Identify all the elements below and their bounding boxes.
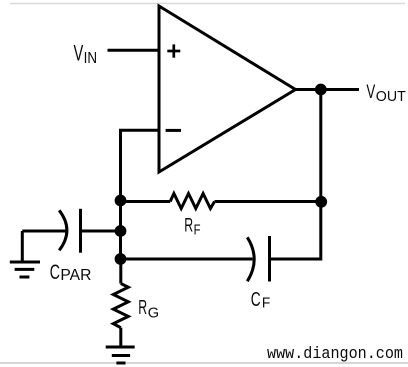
wire: RG bottom lead to ground <box>119 328 122 347</box>
wire CPAR to ground <box>21 231 24 262</box>
wire: CF right plate to output bus <box>270 258 321 261</box>
svg-text:www.diangon.com: www.diangon.com <box>267 345 403 364</box>
wire VIN to plus input <box>108 49 160 52</box>
wire output from apex <box>295 88 359 91</box>
label VOUT <box>366 81 405 105</box>
bottom faint rule <box>0 362 408 364</box>
node: CF / RG junction <box>115 253 127 265</box>
capacitor CF straight plate <box>268 236 271 282</box>
capacitor CPAR straight plate <box>79 209 82 253</box>
op-amp plus pin marker <box>167 44 180 57</box>
wire: CPAR right plate to left bus <box>81 230 121 233</box>
svg-text:R: R <box>184 214 193 236</box>
label RF <box>184 214 200 238</box>
svg-text:V: V <box>366 81 375 103</box>
svg-text:C: C <box>50 260 60 284</box>
op-amp U1 <box>159 6 296 172</box>
svg-text:V: V <box>74 41 84 66</box>
svg-text:PAR: PAR <box>60 267 91 284</box>
svg-text:G: G <box>148 305 159 322</box>
wire right bus vertical <box>319 90 322 261</box>
svg-text:OUT: OUT <box>376 88 406 105</box>
wire left bus vertical <box>119 130 122 260</box>
node: output junction <box>315 84 327 96</box>
label CF <box>251 289 271 311</box>
wire minus input to left bus <box>121 130 160 132</box>
wire: node A to RF left lead <box>121 200 171 203</box>
op-amp minus pin marker <box>166 129 181 132</box>
top faint rule <box>10 3 405 5</box>
svg-text:R: R <box>138 296 147 319</box>
svg-text:C: C <box>251 289 261 311</box>
node: inverting input / RF left junction <box>115 195 127 207</box>
ground (RG) <box>106 346 135 349</box>
resistor RF <box>170 194 214 209</box>
capacitor CF curved plate <box>247 237 254 281</box>
wire: node B to RG top lead <box>119 259 122 284</box>
wire: RF right lead to output bus <box>215 200 321 203</box>
node: CPAR junction <box>115 225 127 237</box>
wire: node B to CF left plate <box>121 258 253 261</box>
capacitor CPAR curved plate <box>59 210 67 250</box>
resistor RG <box>113 284 128 328</box>
label CPAR <box>50 260 92 284</box>
svg-text:F: F <box>262 294 270 311</box>
svg-text:F: F <box>194 223 201 239</box>
svg-text:IN: IN <box>84 50 97 67</box>
ground (CPAR) <box>10 261 40 264</box>
label VIN <box>74 41 98 67</box>
wire: ground to CPAR curved plate <box>22 230 66 233</box>
label RG <box>138 296 159 321</box>
node: RF right junction <box>315 196 327 208</box>
